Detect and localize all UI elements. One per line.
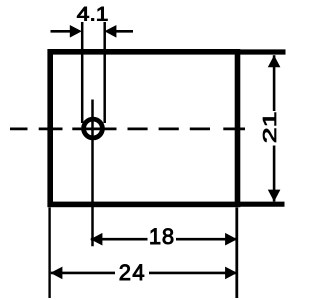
vertical centerline through hole (91, 100, 94, 247)
dim 4.1 right arrow (104, 25, 133, 38)
right extension line (235, 207, 238, 298)
body outline rectangle (50, 52, 237, 205)
dim 24 line with arrows (50, 267, 237, 280)
hole circle (84, 119, 103, 138)
dim 4.1 left arrow (51, 25, 82, 38)
svg-text:24: 24 (119, 260, 146, 285)
svg-text:21: 21 (260, 111, 280, 143)
svg-text:18: 18 (149, 224, 175, 249)
dashed horizontal centerline (10, 128, 245, 131)
dim 21 line with arrows (268, 55, 281, 201)
top edge extension line (240, 49, 286, 54)
hole right extension line (103, 22, 106, 123)
svg-text:4.1: 4.1 (77, 4, 109, 25)
dim 18 line with arrows (90, 233, 237, 246)
left extension line (48, 207, 50, 298)
hole left extension line (81, 22, 84, 123)
bottom edge extension line (240, 202, 285, 207)
